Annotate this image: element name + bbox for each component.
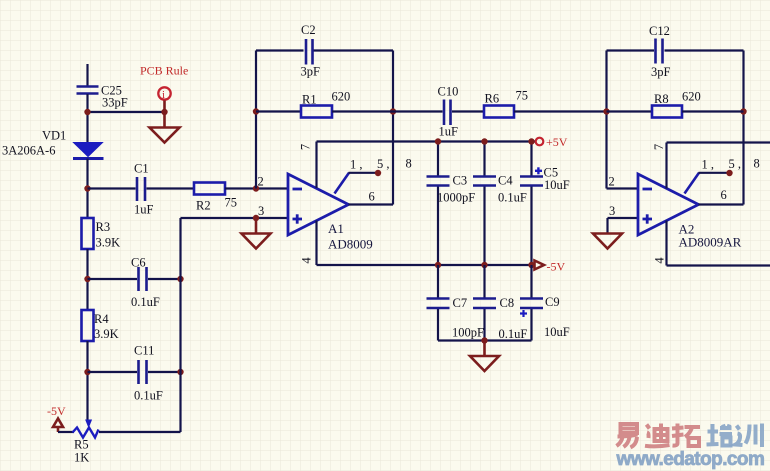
- power -5V (right arrow): [535, 261, 545, 270]
- svg-text:VD1: VD1: [42, 129, 66, 143]
- wire pin3 row: [181, 217, 289, 219]
- wire C6 to right rail: [148, 278, 181, 280]
- output wire pin 6: [349, 203, 394, 205]
- capacitor C1: [137, 177, 145, 201]
- svg-text:C11: C11: [134, 344, 154, 358]
- wire R8 to feedback: [682, 110, 744, 112]
- wire C25 to VD1: [86, 94, 88, 143]
- wire to C6: [88, 278, 138, 280]
- svg-text:1K: 1K: [74, 451, 89, 465]
- pin 4 wire A2: [665, 221, 667, 266]
- watermark CJK 拓: [672, 424, 700, 447]
- op-amp A2: [638, 174, 699, 235]
- wire -5V to pot: [58, 431, 74, 433]
- wire R6 to A2 stage: [514, 110, 607, 112]
- svg-text:R4: R4: [94, 312, 109, 326]
- capacitor C3: [427, 142, 450, 266]
- junction dot: [740, 108, 746, 114]
- svg-text:-5V: -5V: [547, 260, 566, 274]
- wire to C1: [88, 187, 136, 189]
- minus input mark: [643, 188, 653, 191]
- resistor R8: [652, 106, 682, 118]
- svg-text:C2: C2: [301, 23, 316, 37]
- +5V rail A2: [667, 141, 770, 143]
- capacitor C5 (polarized): [520, 142, 543, 266]
- wire feedback right vertical A2: [742, 51, 744, 205]
- PCB Rule marker: [158, 87, 170, 127]
- capacitor C2: [306, 39, 313, 65]
- pins 1,5 NC stub A2: [685, 170, 733, 194]
- output wire pin 6 A2: [699, 203, 744, 205]
- -5V rail: [317, 264, 534, 266]
- svg-text:R3: R3: [96, 220, 111, 234]
- svg-text:R8: R8: [654, 92, 669, 106]
- svg-text:R6: R6: [485, 92, 500, 106]
- svg-text:3: 3: [258, 204, 264, 218]
- pin 7 wire A2: [665, 143, 667, 189]
- svg-text:10uF: 10uF: [544, 325, 570, 339]
- svg-text:10uF: 10uF: [544, 178, 570, 192]
- minus input mark: [293, 188, 303, 191]
- svg-text:2: 2: [609, 175, 615, 189]
- op-amp A1: [288, 174, 349, 235]
- svg-text:1uF: 1uF: [439, 125, 459, 139]
- svg-text:620: 620: [332, 90, 351, 104]
- svg-text:A1: A1: [328, 221, 344, 236]
- power -5V (bottom left): [53, 419, 63, 433]
- power +5V: [536, 138, 544, 146]
- wire feedback left vertical: [255, 51, 257, 189]
- watermark CJK 培: [707, 424, 733, 446]
- svg-text:R5: R5: [74, 438, 89, 452]
- wire R2 to op-amp pin2: [225, 187, 288, 189]
- junction dot: [161, 109, 167, 115]
- capacitor C12: [656, 39, 663, 64]
- svg-text:75: 75: [225, 196, 238, 210]
- junction dot: [84, 185, 90, 191]
- wire pin3 A2: [608, 218, 639, 234]
- resistor R6: [484, 106, 514, 118]
- svg-text:33pF: 33pF: [102, 96, 128, 110]
- capacitor C9 (polarized): [520, 265, 543, 341]
- watermark CJK 迪: [645, 424, 670, 447]
- wire pot to right rail: [99, 431, 181, 433]
- svg-text:R1: R1: [302, 93, 317, 107]
- svg-text:100pF: 100pF: [452, 326, 484, 340]
- svg-text:AD8009: AD8009: [328, 237, 373, 252]
- junction dot: [481, 337, 487, 343]
- junction dot: [177, 369, 183, 375]
- svg-text:3A206A-6: 3A206A-6: [2, 144, 55, 158]
- wire feedback right vertical / output: [392, 51, 394, 205]
- resistor R4: [82, 310, 94, 341]
- svg-text:C9: C9: [545, 295, 560, 309]
- junction dot: [603, 108, 609, 114]
- junction dot pin3: [253, 215, 259, 221]
- junction dot: [253, 108, 259, 114]
- wire VD1 to R3: [86, 159, 88, 219]
- svg-text:8: 8: [406, 157, 412, 171]
- svg-text:PCB Rule: PCB Rule: [140, 64, 188, 78]
- wire C10 to R6: [452, 110, 484, 112]
- svg-text:0.1uF: 0.1uF: [498, 191, 527, 205]
- svg-text:C10: C10: [438, 85, 459, 99]
- svg-text:5 ,: 5 ,: [729, 157, 742, 171]
- junction dot: [390, 108, 396, 114]
- -5V rail A2: [667, 264, 770, 266]
- wire C1 to R2: [147, 187, 195, 189]
- svg-text:0.1uF: 0.1uF: [131, 295, 160, 309]
- capacitor C8: [473, 265, 496, 341]
- svg-text:7: 7: [299, 144, 313, 150]
- svg-text:1000pF: 1000pF: [437, 191, 475, 205]
- svg-text:5 ,: 5 ,: [377, 157, 390, 171]
- svg-text:6: 6: [721, 188, 727, 202]
- svg-text:C7: C7: [453, 296, 468, 310]
- junction dot: [84, 369, 90, 375]
- wire R3 to R4: [86, 249, 88, 310]
- wire C11 to right rail: [148, 371, 181, 373]
- svg-text:C4: C4: [498, 174, 513, 188]
- pins 1,5 NC stub: [335, 170, 382, 194]
- pin 7 wire: [315, 142, 317, 189]
- wire bottom rail C7-C9: [438, 339, 532, 341]
- wire C2 feedback top rail A1: [256, 49, 304, 51]
- junction dot: [84, 109, 90, 115]
- svg-text:0.1uF: 0.1uF: [134, 389, 163, 403]
- wire R4 down to pot arrow: [86, 341, 88, 420]
- watermark CJK 训: [736, 424, 763, 448]
- svg-text:4: 4: [653, 257, 667, 264]
- svg-text:3pF: 3pF: [301, 65, 321, 79]
- svg-text:8: 8: [754, 157, 760, 171]
- wire input stub above C25: [86, 64, 88, 86]
- svg-text:1 ,: 1 ,: [350, 158, 363, 172]
- svg-text:7: 7: [652, 144, 666, 150]
- diode VD1: [73, 143, 104, 159]
- capacitor C4: [473, 142, 496, 266]
- svg-text:620: 620: [682, 90, 701, 104]
- svg-text:2: 2: [258, 175, 264, 189]
- svg-text:C1: C1: [134, 162, 149, 176]
- watermark CJK 易: [617, 424, 638, 448]
- wire R8 row: [607, 110, 653, 112]
- svg-text:C3: C3: [453, 174, 468, 188]
- +5V rail: [317, 140, 537, 142]
- node: wire to PCB Rule ground: [88, 111, 165, 113]
- svg-text:3: 3: [609, 204, 615, 218]
- svg-text:3pF: 3pF: [651, 65, 671, 79]
- svg-text:3.9K: 3.9K: [94, 327, 119, 341]
- ground (decoupling): [470, 341, 499, 372]
- wire pin2 A2: [607, 187, 639, 189]
- wire feedback left vertical A2: [605, 51, 607, 189]
- capacitor C11: [139, 360, 147, 384]
- wire C12 feedback top rail A2: [607, 49, 655, 51]
- capacitor C7: [427, 265, 450, 341]
- svg-text:+5V: +5V: [546, 135, 568, 149]
- resistor R2: [194, 183, 225, 195]
- junction dot pin2 node: [253, 185, 259, 191]
- svg-text:1uF: 1uF: [134, 203, 154, 217]
- svg-text:4: 4: [300, 257, 314, 264]
- svg-text:-5V: -5V: [47, 404, 66, 418]
- svg-text:6: 6: [369, 190, 375, 204]
- svg-text:AD8009AR: AD8009AR: [679, 235, 742, 250]
- svg-text:1 ,: 1 ,: [702, 158, 715, 172]
- ground (A1 pin3): [242, 218, 271, 249]
- pin 4 wire: [315, 221, 317, 266]
- resistor R3: [82, 218, 94, 249]
- junction dot: [84, 276, 90, 282]
- wire right vertical rail: [179, 218, 181, 432]
- svg-text:C8: C8: [500, 296, 515, 310]
- junction dots -5V rail: [435, 262, 441, 268]
- ground (PCB Rule): [150, 128, 180, 143]
- svg-text:www.edatop.com: www.edatop.com: [616, 449, 765, 470]
- svg-text:C6: C6: [131, 256, 146, 270]
- capacitor C6: [139, 267, 147, 291]
- capacitor C10: [444, 100, 451, 126]
- plus input mark: [293, 214, 303, 223]
- plus input mark: [643, 214, 653, 223]
- junction dot: [177, 276, 183, 282]
- svg-text:3.9K: 3.9K: [96, 236, 121, 250]
- resistor R1: [301, 106, 332, 118]
- svg-text:75: 75: [516, 89, 529, 103]
- potentiometer R5: [73, 420, 99, 438]
- capacitor C25: [77, 87, 99, 94]
- svg-text:C12: C12: [649, 24, 670, 38]
- svg-text:R2: R2: [196, 199, 211, 213]
- ground (A2 pin3): [593, 234, 622, 249]
- svg-text:0.1uF: 0.1uF: [499, 327, 528, 341]
- wire to C11: [88, 371, 138, 373]
- wire R1 row: [256, 110, 301, 112]
- svg-text:i: i: [162, 89, 165, 101]
- wire R1 to C10: [332, 110, 443, 112]
